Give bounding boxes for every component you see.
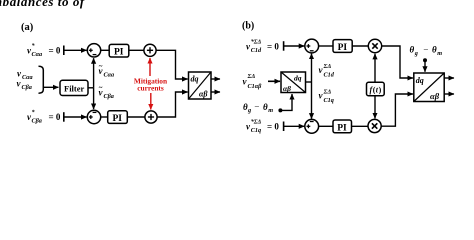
svg-text:m: m <box>268 107 273 114</box>
svg-text:dq: dq <box>294 74 302 83</box>
wire input tick to summing junction S2a <box>64 112 87 122</box>
svg-text:g: g <box>247 107 251 114</box>
svg-text:−: − <box>254 101 260 111</box>
svg-text:*ΣΔ: *ΣΔ <box>251 38 262 45</box>
wire S2b to PI2b <box>319 125 333 127</box>
svg-text:−: − <box>423 44 429 54</box>
svg-text:Cαa: Cαa <box>32 51 43 58</box>
multiplier M1b <box>368 39 381 52</box>
wire input tick to summing junction S1a <box>64 46 87 56</box>
svg-text:m: m <box>437 50 442 57</box>
svg-text:*: * <box>32 43 36 50</box>
svg-text:Filter: Filter <box>64 84 85 94</box>
svg-text:θ: θ <box>432 45 437 55</box>
svg-text:Cβa: Cβa <box>32 118 42 125</box>
wire A2a to dq block input 2 <box>157 92 188 117</box>
output arrow 2 of T1a <box>211 91 220 93</box>
node v*SD_C1d reference label <box>246 38 279 54</box>
svg-text:C1q: C1q <box>251 127 261 134</box>
wire S2a to PI2a <box>101 116 108 118</box>
svg-text:αβ: αβ <box>199 90 208 99</box>
svg-text:PI: PI <box>113 114 123 124</box>
svg-text:Cβa: Cβa <box>104 93 114 100</box>
svg-text:g: g <box>414 50 418 57</box>
wire bracket to Filter <box>43 86 58 88</box>
wire theta into T1b bottom <box>278 94 292 112</box>
wire f(t) to M1b <box>374 54 376 83</box>
node v-tilde_Ca-alpha label <box>99 63 115 79</box>
node vSD_C1d label <box>319 63 335 79</box>
wire S1b to PI1b <box>319 45 333 47</box>
node v*SD_C1q reference label <box>246 119 279 135</box>
output arrow 1 of T1a <box>211 78 220 80</box>
wire PI2b to multiplier M2b <box>352 125 369 127</box>
PI controller PI2b <box>333 120 352 133</box>
node v_Ca-alpha input label <box>17 69 33 82</box>
svg-text:PI: PI <box>114 48 124 58</box>
multiplier M2b <box>368 119 381 132</box>
svg-text:PI: PI <box>337 123 347 133</box>
svg-text:= 0: = 0 <box>267 41 279 51</box>
node theta_g - theta_m label (left) <box>243 101 273 114</box>
svg-text:(b): (b) <box>242 20 254 31</box>
svg-text:ΣΔ: ΣΔ <box>323 89 332 96</box>
node v*_Ca-alpha reference label <box>27 43 61 59</box>
dq/alpha-beta transformation block T1a <box>189 72 212 99</box>
node v-tilde_C-beta label <box>99 84 114 100</box>
svg-text:αβ: αβ <box>430 91 440 101</box>
output arrow 2 of T2b <box>444 93 454 95</box>
wire f(t) to M2b <box>374 96 376 119</box>
node vSD_C1q label <box>319 89 334 105</box>
wire PI2a to adder A2a <box>127 116 145 118</box>
node v*_C-beta reference label <box>27 109 61 125</box>
node theta_g - theta_m label (right) <box>410 44 443 57</box>
svg-text:C1αβ: C1αβ <box>248 83 263 90</box>
adder A1a <box>144 44 156 56</box>
svg-text:ΣΔ: ΣΔ <box>247 73 256 80</box>
wire S1a to PI1a <box>101 49 109 51</box>
svg-text:*ΣΔ: *ΣΔ <box>251 119 262 126</box>
svg-text:θ: θ <box>263 102 268 112</box>
wire theta into T2b top <box>423 58 427 72</box>
svg-text:θ: θ <box>410 45 415 55</box>
summing junction S2b <box>305 119 319 133</box>
svg-text:Cαa: Cαa <box>104 72 115 79</box>
wire input tick to summing junction S1b <box>284 41 305 51</box>
filter block <box>60 80 88 95</box>
svg-text:Cβa: Cβa <box>22 84 32 91</box>
svg-text:C1q: C1q <box>324 97 334 104</box>
svg-text:mbalances to of: mbalances to of <box>0 0 86 9</box>
red mitigation current arrow into A2a <box>150 93 152 110</box>
svg-text:dq: dq <box>191 75 199 84</box>
svg-text:~: ~ <box>99 63 103 71</box>
wire PI1a to adder A1a <box>129 49 144 51</box>
dq/alpha-beta transformation block T2b <box>414 73 444 102</box>
svg-text:ΣΔ: ΣΔ <box>323 63 332 70</box>
svg-text:Cαa: Cαa <box>22 74 33 81</box>
svg-text:currents: currents <box>137 84 164 93</box>
node vSD_C1ab input label <box>243 73 263 90</box>
wire A1a to dq block input 1 <box>156 50 188 79</box>
wire PI1b to multiplier M1b <box>352 45 368 47</box>
svg-text:dq: dq <box>416 76 424 85</box>
feedback vertical wire into S1b and S2b <box>311 54 313 119</box>
svg-text:C1d: C1d <box>251 47 262 54</box>
svg-text:~: ~ <box>99 84 103 92</box>
adder A2a <box>145 111 157 123</box>
bracket grouping filter inputs <box>39 66 44 93</box>
svg-text:PI: PI <box>338 43 348 53</box>
svg-text:= 0: = 0 <box>267 122 279 132</box>
summing junction S1a <box>87 44 100 57</box>
wire into ab-dq block <box>268 80 280 82</box>
wire M2b to dq block input 2 <box>381 94 413 126</box>
svg-text:(a): (a) <box>21 22 34 33</box>
summing junction S2a <box>87 110 100 123</box>
clipped caption text at top <box>0 0 86 9</box>
alpha-beta to dq transformation block T1b <box>281 72 306 93</box>
svg-text:αβ: αβ <box>283 84 291 93</box>
red mitigation current arrow into A1a <box>149 58 151 76</box>
output arrow 1 of T2b <box>444 77 454 79</box>
svg-text:*: * <box>32 109 36 116</box>
wire M1b to dq block input 1 <box>382 46 413 78</box>
red label Mitigation currents <box>134 77 167 93</box>
summing junction S1b <box>305 39 319 53</box>
PI controller PI2a <box>108 111 128 124</box>
wire Filter output to feedback node <box>88 87 94 89</box>
f(t) block <box>367 82 385 95</box>
node v_C-beta input label <box>17 79 32 92</box>
svg-text:= 0: = 0 <box>49 112 61 122</box>
wire T1b output to feedback node <box>306 81 312 83</box>
feedback wire to S1a and S2a <box>93 58 95 109</box>
wire input tick to summing junction S2b <box>284 122 305 132</box>
svg-text:C1d: C1d <box>324 72 335 79</box>
PI controller PI1b <box>333 40 352 53</box>
svg-text:): ) <box>379 86 382 95</box>
svg-text:= 0: = 0 <box>49 46 61 56</box>
PI controller PI1a <box>109 44 129 57</box>
